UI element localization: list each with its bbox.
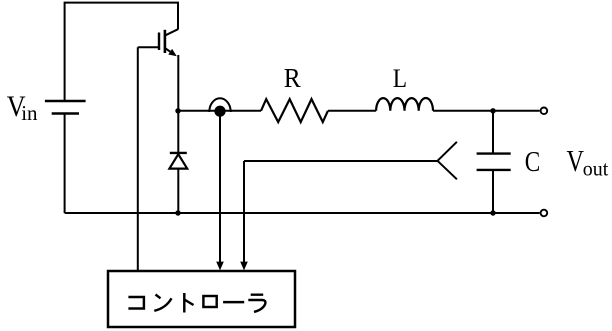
controller box: [108, 271, 295, 327]
wire rail R to L: [328, 110, 376, 112]
transistor Q1 emitter diagonal: [165, 48, 172, 53]
wire diode to bottom rail: [177, 169, 179, 213]
wire capacitor bottom lead: [492, 170, 494, 213]
svg-text:out: out: [583, 158, 609, 181]
transistor Q1 emitter arrowhead: [168, 49, 177, 56]
label katakana ro: [203, 296, 216, 307]
diode D1 cathode bar: [170, 152, 187, 154]
svg-text:R: R: [284, 63, 301, 93]
arrowhead current sense: [216, 262, 224, 271]
arrowhead feedback: [240, 262, 248, 271]
svg-text:V: V: [567, 144, 584, 179]
battery V_in short plate: [52, 112, 79, 114]
label katakana ra: [248, 295, 265, 312]
node emitter junction: [175, 108, 180, 113]
resistor R zigzag: [261, 99, 328, 122]
label katakana long dash: [223, 301, 244, 303]
current sensor dot: [214, 106, 225, 117]
wire emitter to diode: [177, 55, 179, 153]
wire voltage feedback horizontal: [244, 160, 438, 162]
wire rail L to terminal: [433, 110, 540, 112]
terminal output bottom: [541, 210, 548, 217]
wire gate drive down to controller: [137, 47, 139, 270]
transistor Q1 gate bar: [158, 33, 160, 51]
label katakana ko: [128, 297, 144, 309]
wire battery bottom lead: [64, 114, 66, 214]
wire bottom rail: [65, 212, 540, 214]
wire main rail left segment: [178, 110, 261, 112]
node diode bottom junction: [175, 210, 180, 215]
wire top loop from battery to collector: [65, 3, 178, 101]
wire capacitor top lead: [492, 111, 494, 154]
feedback probe lower arm: [438, 161, 457, 180]
inductor L humps: [376, 98, 433, 111]
svg-text:L: L: [393, 65, 407, 93]
wire current sense down to controller: [219, 113, 221, 263]
node capacitor bottom junction: [490, 210, 495, 215]
feedback probe upper arm: [438, 142, 457, 161]
transistor Q1 IGBT collector diagonal: [164, 29, 178, 36]
svg-text:in: in: [21, 101, 38, 125]
capacitor C top plate: [477, 152, 511, 154]
svg-text:C: C: [525, 145, 540, 177]
capacitor C bottom plate: [477, 169, 511, 171]
terminal output top: [541, 108, 548, 115]
current sensor arc: [209, 98, 230, 112]
label katakana n: [154, 295, 171, 311]
transistor Q1 body bar: [164, 30, 167, 53]
node capacitor top junction: [490, 108, 495, 113]
wire feedback down to controller: [243, 161, 245, 263]
label katakana to: [184, 293, 193, 313]
diode D1 triangle: [169, 154, 187, 168]
transistor Q1 gate lead: [138, 46, 158, 48]
battery V_in long plate: [45, 100, 86, 102]
